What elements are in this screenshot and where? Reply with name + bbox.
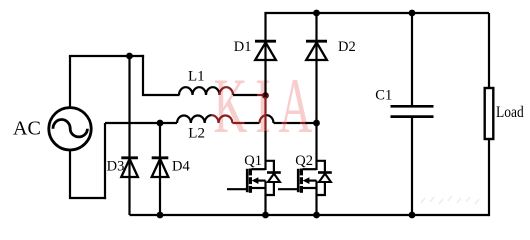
capacitor C1	[391, 13, 434, 215]
wire D1-Q1 vertical	[264, 13, 266, 170]
wire corner down to L1	[143, 55, 180, 95]
svg-text:KIA: KIA	[214, 63, 321, 149]
svg-text:Q2: Q2	[295, 153, 313, 169]
wire top rail	[264, 12, 489, 14]
wire D4 branch vertical	[159, 123, 161, 215]
node junction Q2 source bottom	[313, 212, 320, 219]
svg-text:D4: D4	[172, 158, 190, 174]
diode D2	[306, 41, 327, 60]
node junction L1 / D1 / Q1 drain	[262, 92, 269, 99]
svg-text:D1: D1	[234, 39, 252, 55]
svg-text:L2: L2	[188, 126, 205, 142]
svg-text:C1: C1	[375, 87, 392, 103]
diode D1	[255, 41, 276, 60]
node junction D2 top	[313, 10, 320, 17]
wire D3 branch vertical	[128, 56, 130, 215]
wire D2-Q2 vertical	[315, 13, 317, 170]
resistor Load	[485, 13, 494, 216]
inductor L2	[160, 115, 260, 123]
wire top-left horizontal	[69, 55, 144, 57]
wire L2 hop over Q1 drain	[260, 115, 274, 123]
wire L2 to Q2 drain	[274, 122, 317, 124]
wire AC top lead	[69, 56, 71, 108]
node junction C1 bottom	[409, 212, 416, 219]
wire L2 lead-in	[105, 122, 160, 124]
node junction C1 top	[409, 10, 416, 17]
AC source	[49, 108, 91, 150]
wire AC bottom lead	[70, 150, 106, 198]
wire up to L2	[104, 123, 106, 199]
diode D3	[121, 158, 138, 177]
node junction L2 / D4	[157, 120, 164, 127]
svg-text:L1: L1	[188, 68, 205, 84]
svg-text:AC: AC	[13, 118, 41, 140]
svg-text:D3: D3	[107, 158, 125, 174]
inductor L1	[179, 87, 266, 95]
node junction D4 bottom	[157, 212, 164, 219]
node junction Q1 source bottom	[262, 212, 269, 219]
transistor Q1	[227, 161, 281, 215]
svg-text:Q1: Q1	[244, 153, 262, 169]
svg-text:D2: D2	[338, 39, 356, 55]
svg-text:Load: Load	[496, 104, 524, 121]
wire bottom rail	[130, 214, 490, 216]
transistor Q2	[278, 161, 332, 215]
diode D4	[152, 158, 169, 177]
node junction top-left	[126, 53, 133, 60]
node junction L2 / D2 / Q2 drain	[313, 120, 320, 127]
